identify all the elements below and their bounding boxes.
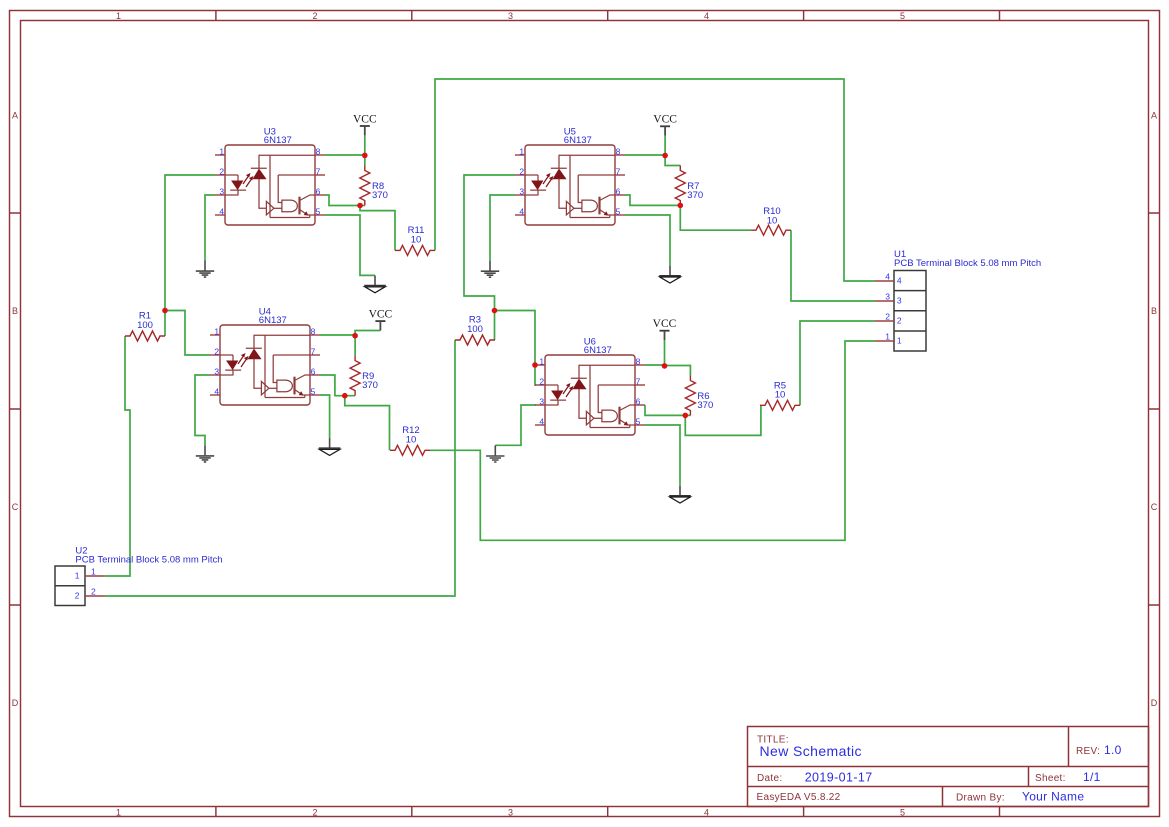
VCC symbol above U5: [653, 114, 677, 136]
wire U6 pin3 to ground: [495, 405, 536, 445]
svg-text:6N137: 6N137: [584, 345, 612, 356]
svg-text:100: 100: [467, 324, 483, 335]
svg-text:A: A: [1151, 110, 1157, 120]
resistor R1: [125, 311, 165, 341]
wire U4 pin5 to ground: [320, 395, 330, 438]
svg-text:2019-01-17: 2019-01-17: [805, 771, 873, 785]
svg-text:370: 370: [697, 400, 713, 411]
svg-text:6N137: 6N137: [264, 135, 292, 146]
resistor R12: [390, 425, 430, 455]
svg-text:D: D: [1151, 698, 1158, 708]
svg-text:370: 370: [362, 380, 378, 391]
svg-text:10: 10: [775, 390, 786, 401]
svg-text:2: 2: [885, 312, 890, 322]
svg-text:10: 10: [406, 434, 417, 445]
junction R8 bottom: [357, 203, 363, 209]
wire U3 pin2 to node A: [165, 175, 215, 311]
wire R1 to U2 pin1: [105, 336, 130, 576]
svg-text:1: 1: [116, 11, 121, 21]
svg-text:2: 2: [312, 807, 317, 817]
junction node B: [492, 308, 498, 314]
VCC symbol above U6: [653, 318, 677, 340]
resistor R8: [360, 166, 388, 206]
ground below U3 pin3: [196, 261, 214, 278]
wire node B to U6 pin2: [495, 311, 537, 386]
wire U3 pin6 to R8 bottom: [325, 195, 365, 206]
svg-text:C: C: [12, 502, 19, 512]
svg-text:Sheet:: Sheet:: [1035, 773, 1066, 784]
resistor R6: [685, 376, 713, 416]
svg-text:370: 370: [687, 190, 703, 201]
svg-text:370: 370: [372, 190, 388, 201]
ground below U3 pin5: [364, 276, 386, 293]
title block: [748, 727, 1149, 807]
svg-text:D: D: [12, 698, 19, 708]
ground below U6 pin5: [669, 486, 691, 503]
svg-text:Date:: Date:: [757, 773, 782, 784]
svg-text:PCB Terminal Block 5.08 mm Pit: PCB Terminal Block 5.08 mm Pitch: [894, 258, 1041, 269]
svg-text:1: 1: [75, 571, 80, 581]
svg-text:REV:: REV:: [1076, 746, 1100, 757]
connector U2 PCB Terminal Block: [55, 546, 223, 606]
svg-text:2: 2: [91, 587, 96, 597]
frame bottom ticks: [216, 807, 1000, 817]
svg-text:3: 3: [885, 292, 890, 302]
svg-text:3: 3: [508, 11, 513, 21]
wire U6 pin6 to R6 bottom: [645, 405, 690, 415]
svg-text:3: 3: [897, 296, 902, 306]
ground below U5 pin3: [481, 261, 499, 278]
wire U5 pin8 to VCC node: [625, 136, 665, 156]
svg-text:2: 2: [75, 591, 80, 601]
wire VCC node to R7: [665, 156, 680, 166]
svg-text:1.0: 1.0: [1104, 743, 1122, 757]
junction R7 bottom: [678, 203, 684, 209]
junction VCC U6: [662, 363, 668, 369]
wire U4 pin8 to VCC node: [320, 331, 380, 336]
resistor R11: [395, 225, 435, 255]
frame left letters: [12, 110, 19, 708]
frame bottom numbers: [116, 807, 905, 817]
frame right letters: [1151, 110, 1158, 708]
wire U6 pin8 to VCC node: [645, 340, 665, 366]
svg-text:B: B: [1151, 306, 1157, 316]
op-amp U4 optocoupler 6N137: [210, 306, 320, 405]
ground below U5 pin5: [659, 266, 681, 283]
resistor R3: [455, 315, 495, 345]
wire VCC node to R6: [665, 366, 691, 376]
op-amp U6 optocoupler 6N137: [535, 336, 645, 435]
wire R6 bottom to R5: [685, 405, 761, 435]
junction node U6 pin1: [532, 362, 538, 368]
wire R3 to node B: [494, 311, 496, 341]
junction VCC U4: [352, 333, 358, 339]
svg-text:2: 2: [312, 11, 317, 21]
svg-text:10: 10: [767, 215, 778, 226]
wire R8 junction to R11: [360, 206, 395, 251]
svg-text:4: 4: [885, 272, 890, 282]
svg-text:6N137: 6N137: [259, 315, 287, 326]
wire node B to U5 pin2: [464, 175, 515, 311]
wire R10 to U1 pin3: [791, 230, 875, 301]
svg-text:5: 5: [900, 807, 905, 817]
junction R9 bottom: [342, 393, 348, 399]
frame top numbers: [116, 11, 905, 21]
wire R9 junction to R12: [345, 396, 390, 451]
wire U3 pin5 to ground: [325, 215, 375, 275]
svg-text:1/1: 1/1: [1083, 770, 1101, 784]
svg-text:5: 5: [900, 11, 905, 21]
svg-text:2: 2: [897, 316, 902, 326]
svg-text:C: C: [1151, 502, 1158, 512]
op-amp U5 optocoupler 6N137: [515, 126, 625, 225]
wire U4 pin6 to R9 bottom: [320, 375, 355, 396]
junction R6 bottom: [683, 413, 689, 419]
ground below U4 pin5: [319, 438, 341, 455]
VCC symbol above U4: [369, 309, 393, 331]
wire R5 to U1 pin2: [800, 321, 875, 405]
svg-text:1: 1: [91, 567, 96, 577]
svg-text:1: 1: [897, 336, 902, 346]
wire U4 pin3 to ground: [195, 375, 210, 445]
op-amp U3 optocoupler 6N137: [215, 126, 325, 225]
ground below U4 pin3: [196, 445, 214, 462]
connector U1 PCB Terminal Block: [875, 249, 1041, 351]
svg-text:3: 3: [508, 807, 513, 817]
wire U5 pin6 to R7 bottom: [625, 195, 680, 205]
frame top ticks: [216, 10, 1000, 21]
svg-text:4: 4: [704, 807, 709, 817]
wire R7 bottom to R10: [680, 205, 751, 230]
svg-text:New Schematic: New Schematic: [760, 743, 862, 759]
resistor R7: [675, 166, 703, 206]
junction VCC U3: [362, 153, 368, 159]
wire U5 pin3 to ground: [490, 195, 515, 261]
svg-text:1: 1: [116, 807, 121, 817]
wire U6 pin5 to ground: [645, 425, 680, 486]
VCC symbol above U3: [353, 113, 377, 135]
wire VCC node to R9: [354, 336, 356, 356]
wire R11 to U1 pin4: [435, 79, 875, 281]
frame right ticks: [1149, 213, 1160, 605]
junction node A: [162, 308, 168, 314]
wire R12 to U1 pin1: [430, 341, 875, 540]
wire U2 pin2 to R3: [105, 340, 455, 596]
wire U5 pin5 to ground: [625, 215, 670, 266]
svg-text:10: 10: [411, 235, 422, 246]
svg-text:4: 4: [704, 11, 709, 21]
svg-text:4: 4: [897, 276, 902, 286]
title block texts: [757, 735, 1122, 804]
resistor R5: [760, 381, 800, 411]
wire node A to U4 pin2: [165, 311, 210, 356]
resistor R10: [751, 206, 791, 235]
svg-text:Drawn By:: Drawn By:: [956, 793, 1005, 804]
ground below U6 pin3: [486, 445, 504, 462]
resistor R9: [350, 356, 378, 396]
wire U3 pin8 to VCC node: [325, 135, 365, 165]
frame left ticks: [10, 213, 21, 605]
svg-text:PCB Terminal Block 5.08 mm Pit: PCB Terminal Block 5.08 mm Pitch: [75, 555, 222, 566]
junction VCC U5: [662, 153, 668, 159]
svg-text:Your Name: Your Name: [1022, 790, 1084, 804]
svg-text:EasyEDA V5.8.22: EasyEDA V5.8.22: [757, 792, 841, 803]
svg-text:6N137: 6N137: [564, 135, 592, 146]
svg-text:A: A: [12, 110, 18, 120]
wire node A to R1: [164, 311, 166, 337]
wire U3 pin3 to ground: [205, 195, 215, 261]
svg-text:100: 100: [137, 320, 153, 331]
svg-text:1: 1: [885, 332, 890, 342]
svg-text:B: B: [12, 306, 18, 316]
